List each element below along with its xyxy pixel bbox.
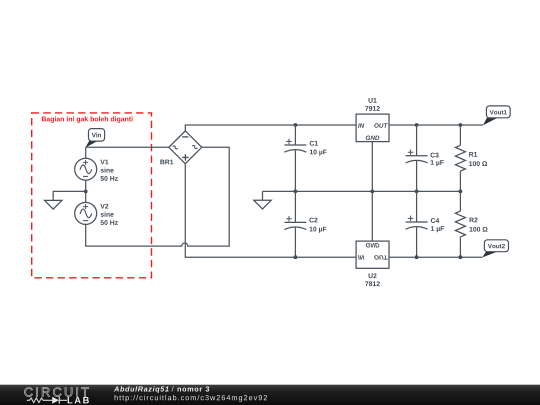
wire BR1 bottom vertex to U2 IN — [185, 164, 356, 258]
BR1 label — [160, 160, 173, 165]
red box label — [42, 116, 133, 122]
resistor R2 — [455, 191, 465, 257]
junction node R2 bottom — [459, 255, 463, 259]
junction node C3 bottom — [415, 190, 419, 194]
capacitor C4 — [406, 191, 428, 257]
wire U2 OUT to Vout2 — [389, 256, 483, 258]
resistor R1 — [455, 125, 465, 191]
V1 labels — [100, 160, 117, 181]
junction node C4 bottom — [415, 255, 419, 259]
junction node R1 bottom — [459, 190, 463, 194]
regulator U1 7912 — [356, 114, 389, 142]
wire Vin node to BR1 left vertex — [86, 146, 169, 148]
wire ground1 branch — [53, 191, 85, 200]
bridge rectifier BR1 — [169, 131, 202, 164]
flag Vin — [85, 129, 104, 148]
junction node GND rail — [370, 190, 374, 194]
capacitor C3 — [406, 125, 428, 191]
footer credit line — [114, 386, 209, 393]
junction node C3 top — [415, 123, 419, 127]
R2 labels — [470, 218, 488, 232]
junction node C2 bottom — [294, 255, 298, 259]
wire U2 GND to mid rail — [371, 191, 373, 241]
wire ground2 stub — [262, 191, 264, 200]
ground GND2 — [254, 200, 271, 209]
capacitor C2 — [284, 191, 306, 257]
CircuitLab logo — [24, 388, 88, 404]
V2 labels — [100, 204, 117, 225]
regulator U2 7812 (rotated) — [356, 241, 389, 268]
wire V1 bottom to V2 top — [85, 180, 87, 202]
junction node V1-V2-ground — [84, 190, 88, 194]
wire V2 bottom to BR1 right vertex (hop over) — [86, 147, 230, 246]
flag Vout1 — [483, 106, 510, 126]
voltage source V1 — [75, 158, 97, 180]
flag Vout2 — [482, 240, 508, 258]
wire BR1 top vertex to U1 IN — [185, 125, 356, 131]
ground GND1 — [45, 200, 62, 209]
red keep-out box — [32, 113, 152, 278]
wire U1 GND to mid rail — [371, 142, 373, 192]
C4 labels — [431, 218, 444, 232]
junction node C1 top — [294, 123, 298, 127]
C1 labels — [310, 141, 327, 156]
capacitor C1 — [284, 125, 306, 191]
wire U1 OUT to Vout1 — [389, 124, 483, 126]
R1 labels — [469, 152, 487, 166]
C2 labels — [309, 218, 326, 233]
C3 labels — [430, 153, 443, 167]
wire Vin node down to V1 top — [85, 147, 87, 158]
junction node C1 bottom — [294, 190, 298, 194]
U2 labels — [365, 273, 380, 286]
footer bar — [0, 385, 540, 405]
junction node R1 top — [459, 123, 463, 127]
U1 labels — [365, 98, 380, 111]
footer url line — [115, 395, 267, 402]
middle ground rail — [263, 190, 461, 192]
voltage source V2 — [75, 202, 97, 224]
